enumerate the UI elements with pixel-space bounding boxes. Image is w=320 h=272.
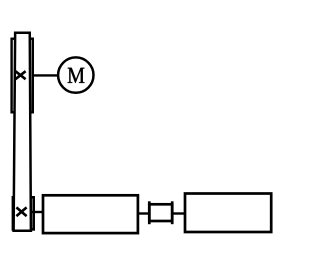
coupling K1 left flange [148,201,151,224]
pulley P2 (driven pulley on roller shaft) [13,197,34,229]
shaft cross X1 (motor shaft through pulley P1) [15,71,25,79]
pulley P1 (driving pulley on motor shaft) [12,39,33,113]
motor M (circle) [58,57,93,92]
roller 1 [43,195,138,233]
wire: shaft pulley P2 to roller 1 [32,211,45,213]
shaft cross X2 (roller shaft through pulley P2) [16,207,26,216]
label M [68,68,85,83]
roller 2 [185,194,271,233]
wire: shaft roller 1 to coupling [138,212,149,214]
belt B1 (vertical belt loop) [14,33,31,231]
coupling K1 right flange [171,201,174,224]
wire: motor shaft [33,74,59,76]
coupling K1 (square body) [149,204,172,221]
wire: shaft coupling to roller 2 [174,212,187,214]
